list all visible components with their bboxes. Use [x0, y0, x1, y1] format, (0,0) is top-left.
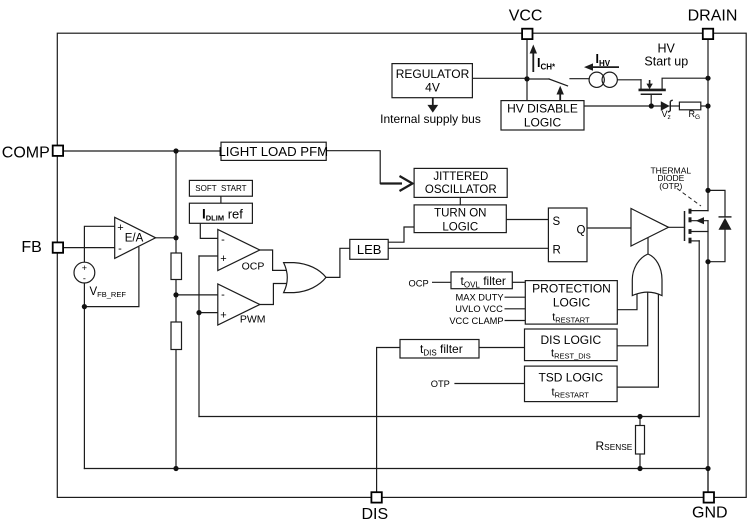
node VFB_REF bottom	[82, 304, 87, 309]
power MOSFET body stub	[692, 220, 709, 222]
wire OCP output to OR gate	[260, 250, 289, 270]
resistor R divider upper	[171, 253, 182, 280]
wire VCC pin down to HV disable logic	[526, 39, 528, 101]
wire VCC CLAMP	[505, 320, 525, 322]
svg-text:RSENSE: RSENSE	[596, 439, 633, 453]
wire FB pin to E/A minus	[63, 247, 115, 249]
dashed pointer to thermal diode	[677, 189, 701, 207]
MOSFET gate bar	[684, 211, 686, 241]
comparator PWM	[218, 284, 260, 325]
svg-text:S: S	[553, 216, 561, 228]
node divider bottom	[173, 466, 178, 471]
resistor RG	[679, 102, 700, 110]
wire DIS pin up to tDIS filter	[377, 348, 400, 492]
resistor R divider lower	[171, 322, 182, 350]
block TURN ON LOGIC	[414, 205, 506, 233]
arrow HV FET depletion (down)	[646, 80, 652, 89]
wire COMP to LIGHT LOAD PFM	[63, 150, 221, 152]
svg-text:Q: Q	[577, 225, 586, 237]
svg-text:SOFT START: SOFT START	[195, 184, 246, 193]
wire soft start to IDLIM ref	[220, 196, 222, 203]
wire current sense horizontal to source	[199, 416, 699, 418]
comparator OCP	[218, 230, 260, 271]
wire PWM plus stub	[199, 312, 218, 314]
wire tOVL filter to protection logic	[512, 281, 525, 283]
arrow HV-disable to switch	[557, 86, 564, 101]
wire VFB_REF node to E/A underside	[84, 248, 138, 307]
wire OR gate output to LEB	[326, 248, 350, 277]
node drain RG	[705, 103, 710, 108]
svg-text:LIGHT LOAD PFM: LIGHT LOAD PFM	[218, 144, 328, 159]
svg-text:OTP: OTP	[431, 379, 450, 389]
wire between divider resistors	[175, 280, 177, 323]
OR gate vertical (protection)	[632, 254, 662, 296]
block JITTERED OSCILLATOR	[414, 168, 507, 197]
thermal diode	[719, 217, 732, 230]
thermal diode bottom branch	[708, 230, 725, 262]
wire MOSFET source down	[698, 241, 700, 417]
node VCC internal	[524, 76, 529, 81]
wire DRAIN pin down to power MOSFET drain	[707, 39, 709, 211]
svg-text:TSD LOGIC: TSD LOGIC	[538, 370, 603, 384]
wire protection logic to OR gate	[617, 292, 637, 310]
pin FB	[53, 242, 63, 252]
svg-text:R: R	[553, 244, 561, 256]
node Rsense top	[637, 414, 642, 419]
svg-text:Start up: Start up	[644, 55, 688, 69]
svg-text:DIS: DIS	[361, 506, 388, 523]
wire OCP label to tOVL filter	[433, 281, 451, 283]
wire RG to drain	[701, 105, 708, 107]
wire LEB to TURN ON LOGIC	[388, 227, 414, 242]
resistor RSENSE	[636, 426, 645, 455]
wire UVLO VCC	[505, 308, 525, 310]
svg-text:(OTP): (OTP)	[659, 181, 682, 191]
wire E/A plus to VFB_REF	[84, 226, 114, 262]
wire current sense vertical	[198, 256, 200, 417]
svg-text:+: +	[220, 253, 226, 265]
block LIGHT LOAD PFM	[221, 142, 326, 160]
wire OR gate output to driver underside	[647, 238, 649, 254]
svg-text:GND: GND	[692, 505, 728, 522]
HV FET channel bar	[640, 89, 665, 92]
HV FET gate lead	[650, 94, 652, 106]
wire LEB to R input	[388, 247, 548, 249]
wire regulator to VCC node	[472, 77, 527, 79]
wire MAX DUTY	[505, 296, 525, 298]
node HV FET gate	[649, 103, 654, 108]
wire TSD logic to OR gate	[617, 292, 658, 387]
wire PWM output to OR gate	[260, 284, 289, 305]
node body thermal bottom	[705, 259, 710, 264]
svg-text:-: -	[118, 243, 122, 255]
wire IDLIM ref to OCP minus	[200, 223, 218, 238]
pin DIS	[371, 492, 381, 502]
svg-text:-: -	[83, 274, 86, 284]
power MOSFET drain stub	[692, 210, 709, 212]
svg-text:COMP: COMP	[2, 144, 50, 161]
svg-text:DIS LOGIC: DIS LOGIC	[540, 333, 601, 347]
wire divider tap to PWM minus	[176, 294, 218, 296]
svg-text:HV: HV	[658, 41, 676, 55]
svg-text:-: -	[221, 234, 225, 246]
svg-text:+: +	[117, 222, 123, 234]
node sense to PWM plus	[196, 310, 201, 315]
node drain top	[705, 76, 710, 81]
block DIS LOGIC	[525, 329, 618, 361]
block PROTECTION LOGIC	[525, 281, 617, 325]
wire Rsense top lead	[639, 417, 641, 426]
wire divider bottom to GND bus	[175, 350, 177, 469]
svg-text:LOGIC: LOGIC	[553, 295, 591, 309]
zener diode Vz	[661, 100, 673, 112]
wire HV disable logic to zener	[584, 105, 661, 107]
wire driver to gate	[669, 226, 685, 228]
svg-text:E/A: E/A	[125, 233, 144, 245]
wire zener to RG	[670, 105, 679, 107]
wire GND node down to pin	[707, 469, 709, 493]
power MOSFET	[685, 209, 691, 244]
svg-text:+: +	[82, 263, 87, 273]
block tDIS filter	[400, 340, 479, 359]
svg-text:Internal supply bus: Internal supply bus	[380, 112, 481, 126]
OR gate horizontal (OCP/PWM)	[284, 263, 326, 293]
svg-text:OCP: OCP	[242, 260, 265, 272]
arrow PFM to jittered oscillator	[380, 176, 412, 191]
wire LIGHT LOAD PFM to oscillator arrow	[326, 151, 380, 184]
arrow IHV left	[584, 63, 619, 70]
wire tDIS filter to DIS logic	[479, 347, 525, 349]
wire bottom GND bus	[84, 468, 708, 470]
op-amp E/A	[115, 217, 156, 258]
wire COMP bus vertical x=176 upper	[175, 151, 177, 253]
svg-text:LOGIC: LOGIC	[442, 221, 478, 233]
power MOSFET body vertical to GND	[707, 221, 709, 492]
wire switch left contact	[527, 78, 549, 80]
svg-text:+: +	[220, 310, 226, 322]
arrow regulator to internal supply bus	[427, 98, 438, 113]
gate driver buffer	[631, 209, 669, 247]
wire OTP to TSD logic	[455, 383, 525, 385]
current source circle 1	[589, 72, 604, 87]
block HV DISABLE LOGIC	[501, 101, 584, 130]
HV FET right stub and top wire to drain	[662, 78, 708, 88]
wire TURN ON LOGIC to S input	[506, 219, 548, 221]
svg-text:REGULATOR: REGULATOR	[396, 67, 470, 81]
svg-text:4V: 4V	[425, 81, 440, 95]
wire Q output to driver	[587, 227, 631, 229]
block LEB	[350, 239, 388, 259]
node COMP/PFM junction	[173, 148, 178, 153]
power MOSFET stub3	[692, 231, 709, 233]
svg-text:PWM: PWM	[240, 313, 266, 325]
block tOVL filter	[451, 272, 512, 289]
svg-text:VCC: VCC	[509, 8, 543, 25]
node drain thermal top	[705, 188, 710, 193]
node GND bus right	[705, 466, 710, 471]
svg-text:OCP: OCP	[409, 278, 429, 288]
HV FET left stub	[640, 80, 642, 89]
svg-text:UVLO VCC: UVLO VCC	[455, 304, 503, 314]
svg-text:FB: FB	[21, 239, 41, 256]
wire E/A output	[156, 237, 176, 239]
switch blade	[549, 79, 568, 86]
block REGULATOR 4V	[392, 64, 472, 98]
node divider tap	[173, 292, 178, 297]
current source circle 2	[602, 72, 617, 87]
svg-text:OSCILLATOR: OSCILLATOR	[425, 184, 497, 196]
MOSFET channel segments	[689, 209, 692, 214]
block TSD LOGIC	[525, 366, 618, 402]
wire current source to HV FET	[618, 79, 641, 81]
power MOSFET source stub	[692, 240, 700, 242]
block IDLIM ref	[189, 203, 252, 223]
pin VCC	[522, 29, 532, 39]
thermal diode top branch	[708, 190, 725, 217]
svg-text:DRAIN: DRAIN	[688, 8, 738, 25]
svg-text:PROTECTION: PROTECTION	[532, 281, 611, 295]
MOSFET body arrow	[696, 217, 704, 224]
HV FET gate bar	[641, 93, 661, 95]
svg-text:MAX DUTY: MAX DUTY	[456, 292, 504, 302]
svg-text:VCC CLAMP: VCC CLAMP	[449, 316, 503, 326]
svg-text:HV DISABLE: HV DISABLE	[507, 102, 578, 116]
wire Rsense bottom lead	[639, 454, 641, 469]
pin GND	[704, 492, 714, 502]
node E/A output junction	[173, 235, 178, 240]
node Rsense bottom	[637, 466, 642, 471]
block SR latch	[548, 208, 587, 262]
svg-text:JITTERED: JITTERED	[433, 171, 488, 183]
wire DIS logic to OR gate	[617, 293, 648, 346]
svg-text:LOGIC: LOGIC	[524, 116, 562, 130]
arrow ICH up	[530, 45, 537, 73]
block SOFT START	[189, 180, 252, 196]
wire oscillator to turn-on logic	[459, 197, 461, 205]
svg-text:TURN ON: TURN ON	[434, 208, 486, 220]
wire switch right contact to current source	[570, 78, 589, 80]
pin DRAIN	[703, 29, 713, 39]
svg-text:-: -	[221, 289, 225, 301]
voltage source VFB_REF	[74, 262, 95, 283]
wire VFB_REF bottom to GND bus	[83, 283, 85, 469]
svg-text:LEB: LEB	[357, 242, 382, 257]
wire OCP plus stub	[199, 255, 218, 257]
pin COMP	[53, 146, 63, 156]
